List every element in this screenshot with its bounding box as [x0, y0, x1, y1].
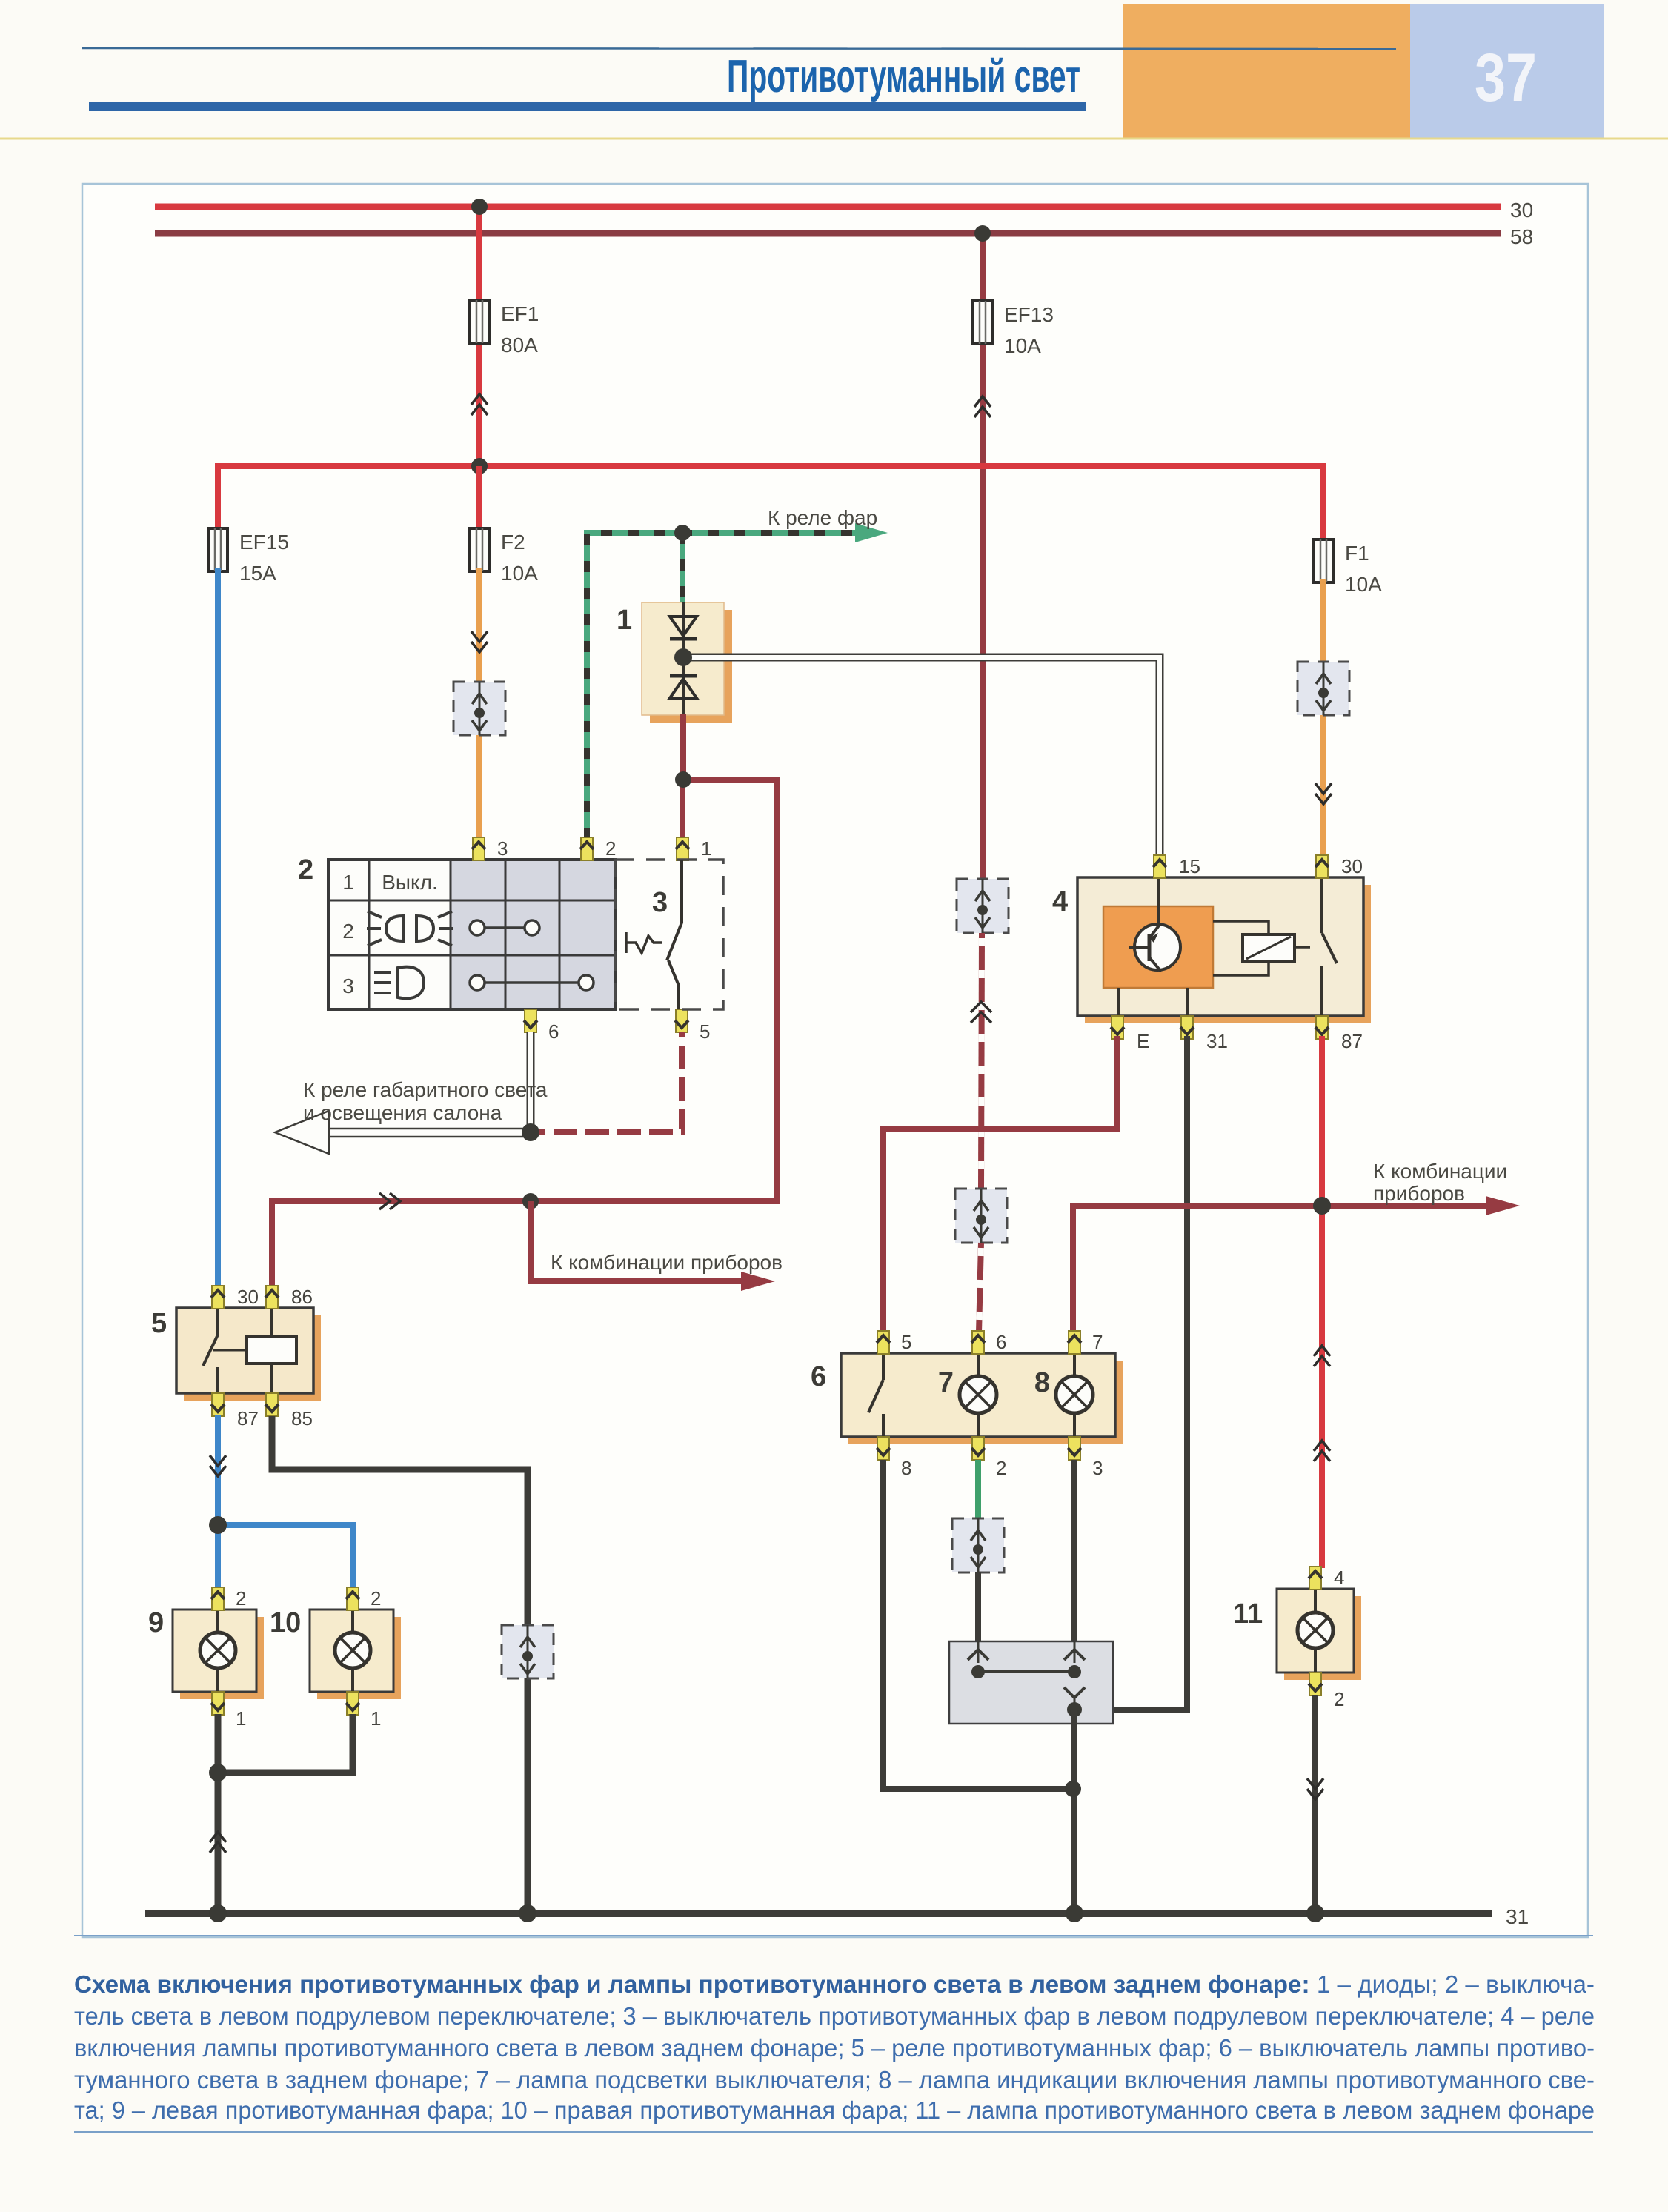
lamp 10 shadow — [317, 1617, 401, 1699]
diode unit 1 label — [617, 605, 632, 636]
svg-text:30: 30 — [1341, 855, 1363, 877]
lamp 10 label — [270, 1607, 301, 1638]
ground bus 31 — [145, 1910, 1492, 1917]
svg-text:3: 3 — [497, 837, 508, 860]
label Vykl — [382, 871, 437, 894]
svg-text:2: 2 — [605, 837, 616, 860]
fog light pictogram — [374, 967, 424, 999]
svg-text:2: 2 — [1334, 1688, 1344, 1710]
wire black from pin 3 to splice box — [1071, 1460, 1077, 1644]
chevron mark on F2 orange wire (down) — [471, 631, 488, 652]
wire dark red from relay 4 pin E to lamp-switch pin 5 — [883, 1036, 1117, 1332]
title underline bar — [89, 102, 1086, 111]
red distribution wire (horizontal) — [218, 466, 1323, 541]
page title — [727, 51, 1080, 102]
svg-text:3: 3 — [342, 974, 354, 997]
label K kombinacii priborov (right) — [1373, 1160, 1507, 1205]
pin 3 of switch 2 — [472, 837, 485, 860]
pin 2 of lamp 11 — [1309, 1673, 1322, 1695]
pin E of relay 4 — [1111, 1016, 1124, 1039]
pin 30 of relay 5 label — [237, 1286, 259, 1308]
pin 1 of lamp 9 — [211, 1692, 225, 1715]
pin 2 of switch 2 — [580, 837, 594, 860]
svg-text:включения лампы противотуманно: включения лампы противотуманного света в… — [74, 2034, 1595, 2062]
lamp 9 label — [148, 1607, 164, 1638]
svg-text:4: 4 — [1052, 886, 1068, 917]
svg-text:1: 1 — [342, 871, 354, 894]
diode internal wire — [682, 602, 685, 715]
pin 1 of switch 3 — [676, 837, 689, 860]
relay 5 contact — [203, 1308, 247, 1393]
svg-text:10A: 10A — [1345, 573, 1382, 596]
wire EF1 feed (red vertical from bus 30) — [476, 207, 482, 466]
chevron marks on lamp 11 feed wire — [1314, 1346, 1330, 1461]
wire EF13 feed (dark red, from bus 58 to connector) — [980, 233, 986, 880]
fuse EF1 value label — [501, 302, 539, 356]
junction below diode unit — [675, 771, 691, 788]
connector on F2 orange wire — [453, 682, 505, 735]
wire EF13 dashed (red-white) to connector 2 — [981, 933, 982, 1189]
connector on ground wire of relay 5 — [502, 1625, 554, 1678]
pin 4 of lamp 11 label — [1334, 1567, 1344, 1589]
svg-text:К реле фар: К реле фар — [768, 506, 877, 529]
svg-text:7: 7 — [938, 1367, 954, 1398]
wire blue from relay 5 pin 87 to fog lamps — [215, 1415, 221, 1589]
pin 31 label — [1206, 1030, 1228, 1052]
wire black from relay 4 pin 31 to splice — [1073, 1036, 1187, 1710]
junction on relay-5 coil feed wire — [522, 1193, 539, 1209]
switch unit 2 body — [328, 860, 615, 1009]
junction bus 31 / fog lamps — [209, 1904, 227, 1922]
chevron mark on EF13 dashed wire — [971, 1002, 991, 1023]
svg-text:Схема включения противотуманны: Схема включения противотуманных фар и ла… — [74, 1970, 1595, 1998]
fuse EF13 value label — [1004, 303, 1054, 357]
svg-text:7: 7 — [1092, 1331, 1103, 1353]
wire EF13 dashed (red-white) to lamp-switch pin 6 — [979, 1243, 981, 1332]
svg-text:EF1: EF1 — [501, 302, 539, 325]
lamp switch 6 body — [841, 1353, 1115, 1437]
svg-text:1: 1 — [371, 1707, 381, 1730]
label K rele far — [768, 506, 877, 529]
svg-text:8: 8 — [901, 1457, 911, 1479]
relay 4 coil loop wires — [1213, 921, 1310, 975]
label K rele gabaritnogo sveta — [303, 1078, 548, 1124]
caption bottom rule — [74, 2131, 1593, 2133]
arrow to instrument cluster (right) — [1486, 1196, 1520, 1215]
chevron mark on blue output wire — [210, 1455, 226, 1476]
svg-text:30: 30 — [1510, 199, 1533, 222]
pin 3 of unit 6 — [1068, 1437, 1081, 1460]
connector on EF13 wire (upper) — [957, 879, 1009, 933]
svg-text:87: 87 — [1341, 1030, 1363, 1052]
wire black from lamp 9 to ground bus — [215, 1714, 222, 1913]
pin 2 of lamp 9 — [211, 1587, 225, 1610]
svg-text:EF15: EF15 — [239, 531, 289, 554]
lamp switch 6 shadow — [848, 1361, 1123, 1444]
wire red-white dashed from switch pin 5 — [531, 1032, 682, 1132]
chevron mark on relay-5 coil feed wire — [379, 1193, 400, 1209]
pin 15 label — [1179, 855, 1200, 877]
svg-text:80A: 80A — [501, 333, 538, 356]
relay 4 transistor block — [1103, 906, 1213, 988]
caption line 3 — [74, 2034, 1595, 2062]
svg-text:тель света в левом подрулевом: тель света в левом подрулевом переключат… — [74, 2002, 1595, 2030]
pin 2 label — [605, 837, 616, 860]
junction green wire node — [674, 525, 691, 541]
caption line 5 — [74, 2096, 1595, 2124]
svg-text:1: 1 — [617, 605, 632, 636]
wire blue branch to lamp 10 — [218, 1525, 353, 1589]
pin 31 of relay 4 — [1180, 1016, 1194, 1039]
pin 8 of unit 6 — [877, 1437, 890, 1460]
svg-text:К комбинации: К комбинации — [1373, 1160, 1507, 1183]
pin 1 of lamp 10 — [346, 1692, 359, 1715]
pin 85 of relay 5 — [265, 1393, 279, 1416]
pin 87 of relay 5 — [211, 1393, 225, 1416]
connector on F1 orange wire — [1297, 662, 1349, 715]
pin 7 of unit 6 — [1068, 1331, 1081, 1354]
relay 4 label — [1052, 886, 1068, 917]
switch 2 contact row2 — [470, 920, 539, 935]
pin 6 of unit 6 label — [996, 1331, 1006, 1353]
wire black from lamp 11 to ground bus — [1312, 1695, 1318, 1913]
lamp 11 bulb — [1297, 1589, 1333, 1673]
svg-text:30: 30 — [237, 1286, 259, 1308]
pin 6 of unit 6 — [971, 1331, 985, 1354]
chevron mark on lamp 11 ground wire — [1307, 1778, 1323, 1799]
outline arrow to side-light relay — [275, 1111, 531, 1154]
lamp 8 bulb — [1056, 1353, 1093, 1437]
caption line 4 — [74, 2066, 1595, 2093]
splice output node — [1067, 1702, 1082, 1717]
pin 85 label — [291, 1407, 313, 1429]
headlight pictogram — [367, 911, 453, 946]
wire dark red diode junction to switch pin 1 — [680, 780, 685, 839]
pin 7 of unit 6 label — [1092, 1331, 1103, 1353]
pin 30 of relay 4 label — [1341, 855, 1363, 877]
fuse EF1 — [470, 300, 489, 343]
pin 3 label — [497, 837, 508, 860]
wire black from lamp 10 joining lamp 9 ground — [218, 1714, 353, 1773]
wire green from pin 2 of unit 6 — [975, 1460, 981, 1518]
lamp 7 label — [938, 1367, 954, 1398]
svg-text:58: 58 — [1510, 225, 1533, 248]
wire black from pin 8 of unit 6 — [883, 1460, 1073, 1789]
svg-text:85: 85 — [291, 1407, 313, 1429]
svg-text:та; 9 – левая противотуманная: та; 9 – левая противотуманная фара; 10 –… — [74, 2096, 1595, 2124]
svg-text:5: 5 — [901, 1331, 911, 1353]
fuse EF15 — [208, 528, 227, 571]
white wire from diode mid to relay 4 pin 15 — [683, 657, 1160, 857]
pin 87 of relay 5 label — [237, 1407, 259, 1429]
svg-text:10: 10 — [270, 1607, 301, 1638]
arrow to headlight relay — [855, 523, 888, 542]
splice internal left entry — [968, 1641, 988, 1678]
pin 2 of lamp 11 label — [1334, 1688, 1344, 1710]
pin 5 of unit 6 — [877, 1331, 890, 1354]
pin 86 label — [291, 1286, 313, 1308]
switch unit 2 gray field — [451, 860, 615, 1009]
pin 5 of unit 6 label — [901, 1331, 911, 1353]
lamp 10 body — [310, 1610, 393, 1692]
svg-text:К реле габаритного света: К реле габаритного света — [303, 1078, 548, 1101]
svg-text:5: 5 — [700, 1020, 710, 1043]
header page-number block 37 — [1410, 4, 1604, 138]
pin 8 of unit 6 label — [901, 1457, 911, 1479]
fog switch 3 detent symbol — [626, 932, 662, 953]
svg-text:37: 37 — [1475, 40, 1537, 116]
transistor VT1 — [1129, 877, 1180, 972]
svg-text:2: 2 — [236, 1587, 246, 1610]
lamp 9 body — [173, 1610, 256, 1692]
lamp 11 body — [1277, 1589, 1354, 1673]
svg-text:2: 2 — [342, 920, 354, 943]
pin 6 of switch 2 — [524, 1009, 537, 1032]
fuse EF13 — [973, 301, 992, 344]
fog switch 3 dashed body — [615, 860, 723, 1009]
chevron mark on EF1 wire — [471, 394, 488, 415]
junction on bus 30 — [471, 199, 488, 215]
arrow to instrument cluster (left) — [741, 1272, 775, 1291]
svg-text:EF13: EF13 — [1004, 303, 1054, 326]
pin 5 of switch 3 — [675, 1009, 688, 1032]
relay 4 shadow — [1085, 885, 1371, 1023]
fuse F2 — [470, 466, 489, 571]
label K kombinacii priborov (left) — [551, 1251, 783, 1274]
splice internal bus — [978, 1672, 1085, 1710]
junction of pin6/pin5 wires — [522, 1123, 539, 1141]
wire black splice to ground bus — [1071, 1710, 1077, 1913]
connector on EF13 wire (lower) — [955, 1189, 1007, 1243]
svg-text:9: 9 — [148, 1607, 164, 1638]
fuse EF15 value label — [239, 531, 289, 585]
svg-text:Выкл.: Выкл. — [382, 871, 437, 894]
svg-text:1: 1 — [701, 837, 711, 860]
switch unit 2 grid — [328, 860, 615, 1009]
switch contact in unit 6 — [868, 1353, 883, 1437]
junction red distribution / EF1 — [471, 458, 488, 474]
svg-text:2: 2 — [298, 854, 313, 886]
relay 4 body — [1077, 877, 1363, 1016]
junction bus 31 / splice — [1066, 1904, 1083, 1922]
fuse F2 value label — [501, 531, 538, 585]
svg-text:15: 15 — [1179, 855, 1200, 877]
svg-text:6: 6 — [811, 1361, 826, 1392]
svg-text:Противотуманный свет: Противотуманный свет — [727, 51, 1080, 102]
diode unit 1 shadow — [650, 610, 732, 723]
relay 4 coil — [1243, 934, 1295, 961]
svg-text:К комбинации приборов: К комбинации приборов — [551, 1251, 783, 1274]
svg-text:E: E — [1137, 1030, 1149, 1052]
svg-text:11: 11 — [1233, 1598, 1263, 1630]
bus 30 label — [1510, 199, 1533, 222]
wire blue from EF15 to relay 5 pin 30 — [215, 568, 221, 1287]
pin 87 of relay 4 — [1315, 1016, 1329, 1039]
svg-text:и освещения салона: и освещения салона — [303, 1101, 502, 1124]
pin 1 of lamp 9 label — [236, 1707, 246, 1730]
pin 30 of relay 5 — [211, 1286, 225, 1309]
pin 2 of lamp 9 label — [236, 1587, 246, 1610]
pin E label — [1137, 1030, 1149, 1052]
pin 15 of relay 4 — [1153, 855, 1166, 878]
pin 2 of lamp 10 label — [371, 1587, 381, 1610]
fog switch 3 label — [652, 887, 668, 918]
wire dark red from diode unit down — [680, 714, 686, 781]
relay 5 shadow — [184, 1315, 321, 1401]
pin 6 label — [548, 1020, 559, 1043]
splice internal right entry — [1064, 1641, 1085, 1678]
fuse F1 — [1314, 539, 1333, 582]
switch unit 2 label — [298, 854, 313, 886]
junction lamp11 feed / instrument line — [1313, 1197, 1331, 1215]
svg-text:5: 5 — [151, 1308, 167, 1339]
wire orange from F1 to relay 4 pin 30 — [1320, 579, 1326, 857]
svg-text:8: 8 — [1034, 1367, 1050, 1398]
lamp 10 bulb — [335, 1610, 371, 1692]
lamp 9 shadow — [180, 1617, 264, 1699]
connector on pin 2 wire — [952, 1518, 1004, 1572]
wire green dashed from switch pin 2 to headlight relay — [587, 533, 865, 839]
junction on bus 58 — [974, 225, 991, 242]
svg-text:15A: 15A — [239, 562, 276, 585]
caption line 2 — [74, 2002, 1595, 2030]
relay 4 transistor output wires — [1118, 988, 1187, 1016]
junction fog lamp grounds — [209, 1764, 227, 1781]
relay 5 coil — [247, 1308, 296, 1393]
wire dark red to instrument cluster (right) — [1073, 1206, 1492, 1332]
green branch down to diode unit — [680, 533, 685, 602]
fuse F1 value label — [1345, 542, 1382, 596]
fog switch 3 contact — [667, 860, 682, 1009]
pin 2 of lamp 10 — [346, 1587, 359, 1610]
header thin rule — [82, 48, 1396, 49]
diagram frame — [82, 184, 1588, 1937]
lamp 11 label — [1233, 1598, 1263, 1630]
switch unit 2 row numbers — [342, 871, 354, 997]
pin 3 of unit 6 label — [1092, 1457, 1103, 1479]
lamp 9 bulb — [200, 1610, 236, 1692]
svg-text:86: 86 — [291, 1286, 313, 1308]
pin 1 label — [701, 837, 711, 860]
junction bus 31 / lamp 11 — [1306, 1904, 1324, 1922]
lamp switch 6 label — [811, 1361, 826, 1392]
svg-text:4: 4 — [1334, 1567, 1344, 1589]
diode VD1 (top, cathode down) — [670, 617, 697, 639]
splice box body — [949, 1641, 1113, 1724]
wire white from switch pin 6 down — [527, 1032, 535, 1132]
relay 5 label — [151, 1308, 167, 1339]
wire black from relay 5 pin 85 — [272, 1416, 528, 1913]
svg-text:F2: F2 — [501, 531, 525, 554]
wire black from connector to splice box — [975, 1572, 981, 1644]
junction blue split — [209, 1516, 227, 1534]
lamp 11 shadow — [1284, 1596, 1361, 1680]
bus 30 wire — [155, 204, 1501, 210]
svg-text:2: 2 — [996, 1457, 1006, 1479]
svg-text:3: 3 — [652, 887, 668, 918]
pin 2 of unit 6 label — [996, 1457, 1006, 1479]
bus 58 wire — [155, 230, 1501, 237]
svg-text:6: 6 — [548, 1020, 559, 1043]
bus 58 label — [1510, 225, 1533, 248]
pin 30 of relay 4 — [1315, 855, 1329, 878]
chevron mark on F1 orange wire (down) — [1315, 783, 1332, 804]
yellow separator line — [0, 138, 1668, 140]
header orange block — [1123, 4, 1410, 138]
junction diode mid node — [674, 648, 692, 666]
relay 5 body — [176, 1308, 313, 1393]
svg-text:3: 3 — [1092, 1457, 1103, 1479]
lamp 8 label — [1034, 1367, 1050, 1398]
pin 87 of relay 4 label — [1341, 1030, 1363, 1052]
lamp 7 bulb — [960, 1353, 997, 1437]
wire red from relay 4 pin 87 to lamp 11 — [1319, 1036, 1325, 1568]
svg-text:приборов: приборов — [1373, 1182, 1465, 1205]
chevron mark on fog lamp ground wire — [210, 1832, 226, 1853]
junction bus 31 / relay 5 ground — [519, 1904, 536, 1922]
pin 4 of lamp 11 — [1309, 1567, 1322, 1590]
svg-text:1: 1 — [236, 1707, 246, 1730]
relay 4 contact — [1322, 877, 1337, 1016]
svg-text:31: 31 — [1206, 1030, 1228, 1052]
pin 2 of unit 6 — [971, 1437, 985, 1460]
svg-text:87: 87 — [237, 1407, 259, 1429]
svg-text:6: 6 — [996, 1331, 1006, 1353]
switch 2 contact row3 — [470, 975, 594, 990]
ground bus 31 label — [1506, 1905, 1529, 1928]
svg-text:F1: F1 — [1345, 542, 1369, 565]
svg-text:10A: 10A — [1004, 334, 1041, 357]
caption line 1 — [74, 1970, 1595, 1998]
diode unit 1 body — [642, 602, 724, 715]
pin 1 of lamp 10 label — [371, 1707, 381, 1730]
svg-text:31: 31 — [1506, 1905, 1529, 1928]
pin 5 label — [700, 1020, 710, 1043]
wire dark red diode junction right and down to relay feed — [272, 780, 777, 1287]
junction splice/pin-8 wire — [1065, 1781, 1081, 1797]
diode VD2 (bottom, cathode up) — [670, 676, 697, 698]
chevron mark on EF13 wire — [974, 396, 991, 417]
svg-text:2: 2 — [371, 1587, 381, 1610]
pin 86 of relay 5 — [265, 1286, 279, 1309]
wire orange from F2 to switch pin 3 — [476, 568, 482, 839]
svg-text:10A: 10A — [501, 562, 538, 585]
caption top rule — [74, 1935, 1593, 1936]
wire dark red to instrument cluster (left) — [531, 1201, 748, 1281]
svg-text:туманного света в заднем фонар: туманного света в заднем фонаре; 7 – лам… — [74, 2066, 1595, 2093]
